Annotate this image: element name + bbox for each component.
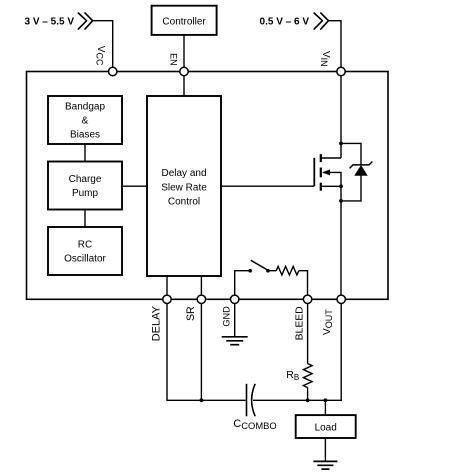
svg-text:Slew Rate: Slew Rate [161, 182, 207, 193]
svg-text:Oscillator: Oscillator [64, 254, 106, 265]
wire Bandgap to Charge Pump [84, 144, 86, 162]
junction Load on bottom rail [324, 398, 328, 402]
pin VIN circle [337, 67, 345, 75]
wire bottom rail to Load [324, 400, 326, 415]
pin BLEED circle [303, 295, 311, 303]
wire Delay block to gate of Q1 [221, 185, 314, 187]
off-page connector chevron (0.5 V supply) [314, 13, 328, 29]
resistor bleed (horizontal zigzag) [276, 266, 299, 275]
wire resistor to BLEED pin [299, 271, 308, 300]
switch S1 blade [251, 260, 267, 270]
zener cathode bar [350, 162, 373, 169]
capacitor C_COMBO curved plate [252, 384, 256, 417]
junction source-diode [339, 199, 343, 203]
bleed path: wire GND pin up to switch [235, 271, 251, 300]
switch S1 contact dot [266, 269, 270, 273]
svg-text:Control: Control [168, 196, 200, 207]
wire Load to ground [324, 438, 326, 461]
svg-text:Bandgap: Bandgap [65, 102, 105, 113]
zener diode D1 (body diode) [341, 143, 372, 201]
junction source-body [339, 184, 343, 188]
wire drain node to cathode [341, 143, 361, 165]
svg-text:Load: Load [315, 423, 337, 434]
svg-text:VIN: VIN [319, 51, 331, 67]
svg-text:RC: RC [78, 240, 92, 251]
switch S1 pole dot [248, 269, 252, 273]
svg-text:3 V – 5.5 V: 3 V – 5.5 V [25, 16, 75, 27]
wire SR pin down to bottom rail [200, 299, 202, 400]
svg-text:Pump: Pump [72, 188, 99, 199]
svg-text:GND: GND [221, 306, 231, 327]
svg-text:0.5 V – 6 V: 0.5 V – 6 V [260, 16, 310, 27]
wire BLEED pin down to resistor RB [307, 299, 309, 363]
svg-text:Charge: Charge [69, 174, 102, 185]
svg-text:CCOMBO: CCOMBO [233, 418, 276, 431]
svg-text:&: & [82, 116, 89, 127]
channel segment source [320, 183, 322, 191]
wire Controller to EN pin [183, 35, 185, 72]
block Load [296, 415, 356, 438]
pin SR circle [197, 295, 205, 303]
wire capacitor to VOUT corner (bottom rail right) [253, 299, 341, 400]
channel segment body [320, 168, 322, 178]
ground symbol below Load [313, 461, 337, 469]
outer box U1 (IC boundary) [27, 72, 389, 300]
wire DELAY pin down to bottom rail [167, 299, 246, 400]
capacitor C_COMBO straight plate [246, 384, 248, 417]
svg-text:VCC: VCC [94, 46, 106, 66]
source stub [321, 185, 341, 187]
gate bar [313, 158, 315, 186]
svg-text:VOUT: VOUT [322, 309, 334, 335]
wire EN pin into Delay block [183, 72, 185, 97]
channel segment drain [320, 154, 322, 162]
wire RB to bottom rail [307, 388, 309, 401]
ground symbol at GND pin [222, 337, 248, 345]
pin DELAY circle [163, 295, 171, 303]
resistor RB (vertical zigzag) [303, 364, 312, 388]
wire Charge Pump to Delay block [122, 185, 147, 187]
wire VIN pin to drain of Q1 [340, 72, 342, 159]
svg-text:SR: SR [185, 306, 197, 321]
pin VOUT circle [337, 295, 345, 303]
junction SR on bottom rail [200, 398, 204, 402]
pin EN circle [180, 67, 188, 75]
wire VIN supply to pin [329, 21, 342, 72]
wire Charge Pump to RC Oscillator [84, 210, 86, 228]
block Bandgap & Biases [48, 96, 122, 144]
body wire to source [329, 172, 341, 186]
transistor Q1 pass FET [314, 154, 341, 191]
svg-text:BLEED: BLEED [295, 306, 306, 340]
wire anode to source node [341, 175, 361, 201]
drain stub [321, 157, 341, 159]
wire switch to resistor [268, 270, 276, 272]
pin VCC circle [109, 67, 117, 75]
wire Delay block to DELAY pin [166, 276, 168, 299]
controller block [152, 6, 217, 35]
svg-text:EN: EN [168, 53, 178, 66]
svg-text:DELAY: DELAY [150, 305, 162, 341]
junction drain-diode [339, 142, 343, 146]
block RC Oscillator [48, 227, 122, 275]
block Delay and Slew Rate Control [147, 96, 221, 276]
block Charge Pump [48, 162, 122, 210]
wire GND pin to ground [234, 299, 236, 337]
body arrow [322, 169, 330, 175]
pin GND circle [231, 295, 239, 303]
junction RB on bottom rail [306, 398, 310, 402]
off-page connector chevron (3 V supply) [78, 13, 92, 29]
wire Delay block to SR pin [200, 276, 202, 299]
wire VCC supply to pin [93, 21, 113, 72]
anode triangle [355, 166, 367, 176]
wire source of Q1 to VOUT pin [340, 186, 342, 299]
svg-text:Biases: Biases [70, 130, 100, 141]
svg-text:Controller: Controller [162, 16, 206, 27]
svg-text:Delay and: Delay and [161, 168, 206, 179]
